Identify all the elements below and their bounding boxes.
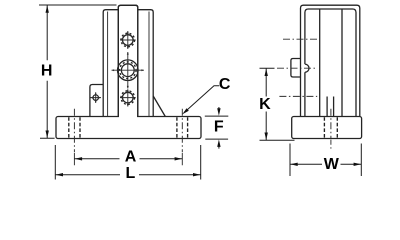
svg-text:K: K: [259, 96, 271, 113]
svg-text:L: L: [126, 165, 136, 182]
svg-text:C: C: [219, 76, 231, 93]
svg-text:A: A: [125, 149, 137, 166]
svg-text:W: W: [324, 156, 340, 173]
svg-text:F: F: [214, 119, 224, 136]
svg-text:H: H: [41, 63, 53, 80]
